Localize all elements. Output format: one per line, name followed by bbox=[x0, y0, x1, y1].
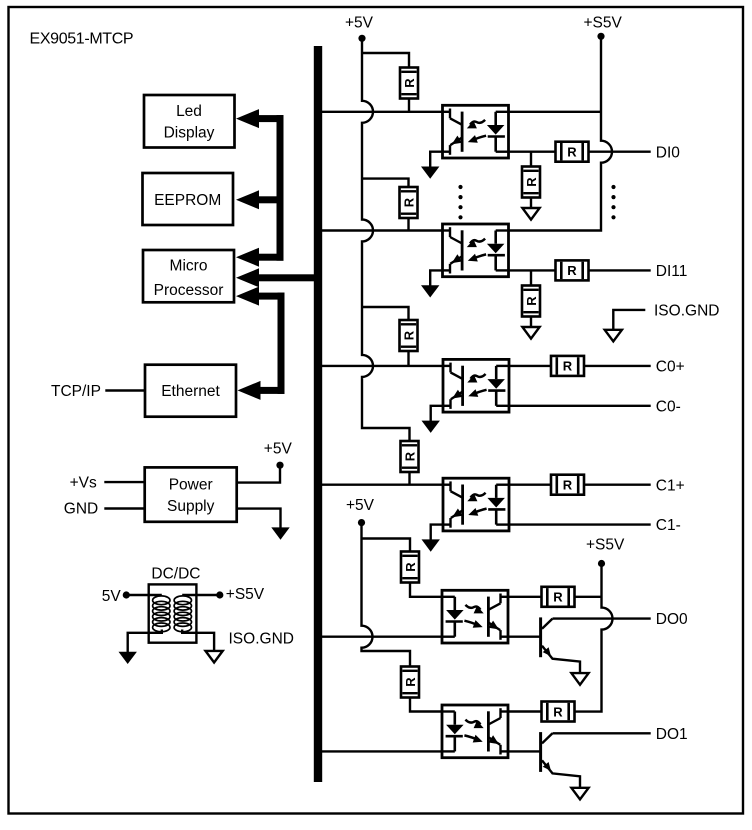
node +5V top dot bbox=[358, 35, 365, 42]
ellipsis dots left column bbox=[458, 185, 462, 189]
svg-text:Supply: Supply bbox=[167, 498, 215, 515]
bus connector vertical link LedDisplay-EEPROM-MCU bbox=[277, 115, 284, 261]
resistor R series C1+ bbox=[551, 475, 584, 495]
wire bus to optocoupler U5 row DO0 cathode bbox=[322, 636, 442, 638]
svg-text:R: R bbox=[524, 296, 539, 306]
ground arrow below optocoupler U3 bbox=[422, 421, 440, 433]
node 5V dot bbox=[123, 591, 130, 598]
transformer DC/DC box bbox=[149, 584, 197, 642]
iso ground symbol reference bbox=[605, 330, 622, 342]
node +S5V lower dot bbox=[598, 560, 605, 567]
wire R pullup DI0 to row wire bbox=[408, 99, 410, 112]
wire DI11 row output bbox=[509, 269, 651, 271]
wire C1- row output bbox=[509, 523, 651, 525]
wire +5V branch to R pullup DI11 bbox=[362, 179, 409, 188]
wire bus to optocoupler U3 row C0 bbox=[322, 365, 443, 367]
wire optocoupler U1 anode to +S5V bbox=[509, 111, 602, 113]
wire +S5V vertical with hop over DI0 bbox=[509, 38, 613, 231]
wire junction to R divider DI0 bbox=[530, 152, 532, 168]
resistor R series DO1 bbox=[542, 702, 575, 722]
svg-text:Processor: Processor bbox=[154, 282, 224, 299]
resistor R series DI11 bbox=[556, 260, 589, 280]
svg-text:Display: Display bbox=[164, 124, 215, 141]
wire optocoupler U5 collector to R series DO0 bbox=[508, 596, 542, 598]
optocoupler U6 (DO1) mirrored bbox=[442, 705, 508, 758]
wire R to optocoupler U6 anode pin bbox=[410, 698, 442, 712]
wire +5V feeder vertical with hops bbox=[362, 40, 410, 442]
bus arrow into Micro Processor pin1 bbox=[259, 254, 284, 261]
resistor R divider DI11 bbox=[522, 286, 540, 317]
wire bus to optocoupler U4 row C1 bbox=[322, 484, 443, 486]
wire optocoupler U3 emitter to ground bbox=[431, 406, 443, 422]
resistor R pullup DI0 bbox=[400, 68, 418, 99]
resistor R series C0+ bbox=[551, 356, 584, 376]
block EEPROM bbox=[143, 173, 234, 225]
svg-text:R: R bbox=[553, 704, 563, 719]
wire DO0 output bbox=[553, 617, 651, 619]
ellipsis dots right column bbox=[611, 185, 615, 189]
wire optocoupler U6 collector to R series DO1 bbox=[508, 710, 542, 712]
block Led Display bbox=[144, 95, 235, 148]
wire junction to R divider DI11 bbox=[530, 270, 532, 286]
wire R pullup C1 to row wire bbox=[408, 472, 410, 485]
node +5V lower dot bbox=[358, 519, 365, 526]
node +S5V dot at DC/DC bbox=[216, 591, 223, 598]
svg-text:Led: Led bbox=[176, 103, 202, 120]
wire optocoupler U5 emitter to Q1 base bbox=[508, 636, 542, 638]
resistor R pullup C0 bbox=[400, 320, 418, 351]
wire bus to optocoupler U2 row DI11 bbox=[322, 229, 443, 231]
wire bus to optocoupler U1 row DI0 bbox=[322, 111, 443, 113]
svg-text:R: R bbox=[567, 263, 577, 278]
iso ground symbol DO0 emitter bbox=[571, 673, 588, 685]
ground arrow below optocoupler U1 bbox=[421, 167, 439, 179]
block Micro Processor U-MCU bbox=[143, 250, 234, 302]
svg-text:R: R bbox=[524, 177, 539, 187]
wire ISO.GND reference bbox=[613, 310, 645, 329]
svg-text:EX9051-MTCP: EX9051-MTCP bbox=[30, 31, 134, 48]
ground arrow below DC/DC left bbox=[119, 652, 137, 664]
resistor R pullup DI11 bbox=[400, 187, 418, 218]
svg-text:TCP/IP: TCP/IP bbox=[51, 383, 101, 400]
transistor Q2 (DO1 output) bbox=[539, 732, 542, 772]
wire transformer right winding to ISO.GND bbox=[182, 630, 214, 652]
optocoupler U1 (DI0) bbox=[443, 105, 509, 158]
svg-text:C1-: C1- bbox=[656, 517, 681, 534]
resistor R divider DI0 bbox=[522, 167, 540, 198]
block Ethernet bbox=[145, 365, 236, 417]
bus arrow into Micro Processor pin2 from main bus bbox=[259, 274, 322, 281]
wire transformer to +S5V node bbox=[182, 594, 218, 596]
wire optocoupler U6 emitter to Q2 base bbox=[508, 750, 542, 752]
svg-text:DO0: DO0 bbox=[656, 611, 688, 628]
wire Power Supply ground branch bbox=[237, 509, 281, 529]
ground arrow below optocoupler U4 bbox=[422, 539, 440, 551]
svg-text:R: R bbox=[403, 451, 418, 461]
block Power Supply bbox=[145, 467, 237, 521]
wire DO1 output bbox=[553, 732, 651, 734]
resistor R series DO0 LED anode bbox=[401, 552, 419, 583]
svg-text:Power: Power bbox=[169, 477, 213, 494]
optocoupler U4 (C1) bbox=[443, 478, 509, 531]
iso ground symbol DI11 bbox=[522, 327, 539, 339]
wire GND to Power Supply bbox=[104, 507, 144, 509]
svg-text:+S5V: +S5V bbox=[584, 14, 623, 31]
svg-text:R: R bbox=[402, 197, 417, 207]
resistor R series DO0 bbox=[542, 587, 575, 607]
svg-text:R: R bbox=[553, 590, 563, 605]
svg-text:DI0: DI0 bbox=[656, 144, 681, 161]
wire +5V lower feeder vertical with hop bbox=[362, 524, 411, 668]
svg-text:+Vs: +Vs bbox=[70, 475, 97, 492]
svg-text:+5V: +5V bbox=[346, 497, 375, 514]
wire +S5V lower vertical with hop over DO0 bbox=[575, 565, 613, 712]
wire R divider DI0 to iso ground bbox=[530, 198, 532, 210]
wire C0+ row output bbox=[509, 365, 651, 367]
svg-text:+S5V: +S5V bbox=[226, 586, 265, 603]
resistor R series DO1 LED anode bbox=[401, 667, 419, 698]
ground arrow below optocoupler U2 bbox=[421, 285, 439, 297]
wire +Vs to Power Supply bbox=[104, 481, 144, 483]
resistor R pullup C1 bbox=[401, 441, 419, 472]
svg-text:DI11: DI11 bbox=[656, 263, 688, 280]
wire transformer left winding to ground bbox=[128, 630, 162, 653]
wire C1+ row output bbox=[509, 484, 651, 486]
svg-text:+5V: +5V bbox=[345, 14, 374, 31]
bus connector vertical link MCU-Ethernet bbox=[278, 293, 285, 394]
wire optocoupler U2 emitter to ground bbox=[430, 270, 442, 286]
optocoupler U2 (DI11) bbox=[443, 224, 509, 277]
wire Power Supply to +5V node bbox=[237, 467, 280, 483]
svg-text:R: R bbox=[403, 677, 418, 687]
svg-text:Micro: Micro bbox=[170, 258, 208, 275]
bus arrow into Micro Processor pin3 bbox=[259, 293, 285, 300]
wire bus to optocoupler U6 row DO1 cathode bbox=[322, 750, 442, 752]
bus arrow into EEPROM bbox=[259, 196, 284, 203]
optocoupler U5 (DO0) mirrored bbox=[442, 590, 508, 643]
wire R divider DI11 to iso ground bbox=[530, 317, 532, 329]
wire R pullup C0 to row wire bbox=[407, 351, 409, 366]
bus arrow into Ethernet bbox=[261, 387, 285, 394]
wire R series DO0 to +S5V rail bbox=[575, 596, 602, 598]
svg-text:R: R bbox=[563, 478, 573, 493]
transformer right winding coil bbox=[174, 596, 191, 605]
svg-text:+5V: +5V bbox=[264, 440, 293, 457]
wire +5V branch to R pullup C0 bbox=[362, 307, 409, 321]
ground arrow below Power Supply bbox=[271, 527, 289, 539]
svg-text:DC/DC: DC/DC bbox=[151, 565, 200, 582]
resistor R series DI0 bbox=[556, 142, 589, 162]
svg-text:ISO.GND: ISO.GND bbox=[229, 630, 294, 647]
transistor Q1 (DO0 output) bbox=[539, 617, 542, 657]
svg-text:Ethernet: Ethernet bbox=[161, 383, 220, 400]
iso ground symbol DI0 bbox=[522, 208, 539, 220]
svg-text:ISO.GND: ISO.GND bbox=[654, 303, 719, 320]
wire R to optocoupler U5 anode pin bbox=[410, 583, 442, 597]
svg-text:EEPROM: EEPROM bbox=[154, 192, 221, 209]
svg-text:GND: GND bbox=[64, 501, 98, 518]
main vertical bus bar bbox=[314, 46, 322, 782]
svg-text:C1+: C1+ bbox=[656, 477, 685, 494]
svg-text:R: R bbox=[403, 562, 418, 572]
svg-text:R: R bbox=[402, 78, 417, 88]
svg-text:C0-: C0- bbox=[656, 398, 681, 415]
svg-text:5V: 5V bbox=[102, 588, 122, 605]
svg-text:R: R bbox=[567, 145, 577, 160]
wire optocoupler U4 emitter to ground bbox=[431, 525, 443, 541]
node +S5V top dot bbox=[597, 33, 604, 40]
wire 5V into transformer bbox=[128, 594, 162, 596]
svg-text:R: R bbox=[402, 330, 417, 340]
wire TCP/IP to Ethernet bbox=[105, 389, 145, 391]
wire optocoupler U1 emitter to ground bbox=[430, 152, 442, 168]
wire R pullup DI11 to row wire bbox=[407, 218, 409, 231]
svg-text:+S5V: +S5V bbox=[586, 537, 625, 554]
wire DI0 row output bbox=[509, 150, 651, 152]
bus arrow into Led Display bbox=[259, 115, 284, 122]
optocoupler U3 (C0) bbox=[443, 359, 509, 412]
svg-text:R: R bbox=[563, 359, 573, 374]
svg-text:C0+: C0+ bbox=[656, 359, 685, 376]
wire +5V branch to R pullup DI0 bbox=[362, 53, 409, 69]
wire +5V lower branch to R series DO0 LED bbox=[362, 539, 411, 553]
svg-text:DO1: DO1 bbox=[656, 726, 688, 743]
wire C0- row output bbox=[509, 405, 651, 407]
iso ground symbol DO1 emitter bbox=[571, 788, 588, 800]
iso ground symbol below DC/DC right bbox=[206, 651, 223, 663]
node +5V dot bbox=[276, 462, 283, 469]
transformer left winding coil bbox=[153, 596, 170, 605]
